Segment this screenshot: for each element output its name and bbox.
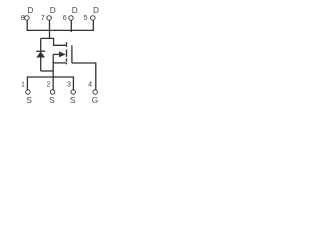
pin 8 terminal bbox=[25, 16, 30, 21]
wire pin6 to top bus bbox=[70, 20, 72, 32]
wire pin7 through bus to drain node bbox=[49, 20, 51, 38]
mosfet Q1 channel dash source bbox=[66, 58, 68, 61]
wire pin8 to top bus bbox=[26, 20, 28, 31]
svg-text:4: 4 bbox=[88, 80, 92, 88]
svg-text:6: 6 bbox=[63, 14, 67, 22]
mosfet Q1 source stub bbox=[53, 62, 66, 64]
svg-text:S: S bbox=[70, 95, 76, 105]
pin 6 terminal bbox=[69, 16, 74, 21]
mosfet Q1 body stub bbox=[53, 53, 60, 55]
diode D1 bottom wire bbox=[40, 57, 42, 71]
mosfet Q1 gate plate bbox=[71, 45, 73, 63]
svg-text:G: G bbox=[92, 95, 98, 105]
source column wire bbox=[52, 54, 54, 90]
top drain bus bbox=[27, 29, 93, 31]
pin 1 terminal bbox=[26, 90, 31, 95]
svg-text:5: 5 bbox=[84, 14, 88, 22]
svg-text:D: D bbox=[93, 5, 99, 15]
mosfet Q1 channel dash body bbox=[66, 50, 68, 57]
svg-text:D: D bbox=[72, 5, 78, 15]
gate wire to pin4 bbox=[72, 63, 96, 90]
svg-text:D: D bbox=[27, 5, 33, 15]
svg-text:3: 3 bbox=[67, 80, 71, 88]
wire pin5 to top bus bbox=[92, 20, 94, 31]
pin 3 terminal bbox=[71, 90, 76, 95]
mosfet Q1 channel dash drain bbox=[66, 42, 68, 47]
svg-text:7: 7 bbox=[41, 14, 45, 22]
pin 5 terminal bbox=[91, 16, 96, 21]
drain node wire bbox=[41, 38, 66, 45]
diode D1 triangle bbox=[36, 52, 45, 58]
pin 7 terminal bbox=[47, 16, 52, 21]
svg-text:S: S bbox=[49, 95, 55, 105]
diode D1 top wire bbox=[40, 38, 42, 51]
svg-text:D: D bbox=[50, 5, 56, 15]
mosfet Q1 channel dash source lower bbox=[66, 63, 68, 65]
diode D1 cathode bar bbox=[36, 51, 45, 52]
svg-text:2: 2 bbox=[46, 80, 50, 88]
wire pin1 drop bbox=[26, 76, 28, 90]
mosfet Q1 body arrow bbox=[59, 52, 66, 58]
bottom source bus bbox=[27, 76, 73, 78]
diode D1 link to source column bbox=[41, 70, 54, 72]
svg-text:1: 1 bbox=[21, 80, 25, 88]
svg-text:S: S bbox=[26, 95, 32, 105]
wire pin3 drop bbox=[72, 76, 74, 90]
pin 2 terminal bbox=[50, 90, 55, 95]
svg-text:8: 8 bbox=[21, 14, 25, 22]
pin 4 terminal bbox=[93, 90, 98, 95]
